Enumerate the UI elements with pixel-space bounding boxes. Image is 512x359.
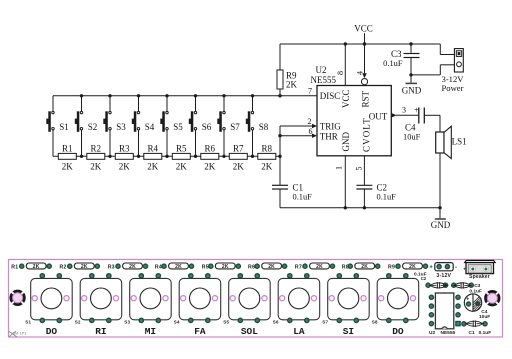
svg-text:S4: S4	[145, 122, 155, 132]
svg-text:2K: 2K	[33, 264, 40, 270]
svg-text:+: +	[414, 105, 419, 115]
svg-text:2K: 2K	[175, 264, 182, 270]
svg-text:2K: 2K	[361, 264, 368, 270]
svg-text:S4: S4	[174, 319, 180, 324]
svg-text:0.1uF: 0.1uF	[469, 288, 482, 294]
svg-text:SM-1P1: SM-1P1	[13, 331, 27, 335]
svg-text:R2: R2	[60, 264, 67, 270]
svg-text:Power: Power	[442, 83, 464, 93]
svg-text:3: 3	[402, 105, 406, 114]
svg-text:0.1uF: 0.1uF	[479, 330, 492, 336]
svg-text:OUT: OUT	[369, 111, 388, 121]
svg-text:R6: R6	[205, 144, 216, 154]
svg-text:DISC: DISC	[320, 91, 341, 101]
svg-text:2K: 2K	[90, 162, 102, 172]
svg-text:C2: C2	[377, 183, 388, 193]
svg-text:S7: S7	[230, 122, 240, 132]
svg-text:R1: R1	[11, 264, 18, 270]
svg-text:S5: S5	[223, 319, 229, 324]
svg-text:S8: S8	[372, 319, 378, 324]
svg-text:TRIG: TRIG	[320, 122, 341, 132]
svg-text:2K: 2K	[62, 162, 74, 172]
svg-text:2K: 2K	[147, 162, 159, 172]
svg-text:R7: R7	[295, 264, 302, 270]
svg-text:+: +	[463, 267, 466, 272]
svg-text:0.1uF: 0.1uF	[383, 59, 403, 68]
svg-text:R4: R4	[148, 144, 159, 154]
svg-text:S5: S5	[173, 122, 183, 132]
svg-text:S3: S3	[116, 122, 126, 132]
svg-text:R5: R5	[176, 144, 187, 154]
svg-text:U2: U2	[429, 330, 435, 336]
svg-text:R8: R8	[262, 144, 273, 154]
svg-text:3-12V: 3-12V	[436, 273, 451, 279]
svg-text:2K: 2K	[409, 264, 416, 270]
svg-text:2: 2	[308, 117, 312, 126]
svg-text:0.1uF: 0.1uF	[377, 192, 397, 201]
svg-text:2K: 2K	[316, 264, 323, 270]
svg-text:NE555: NE555	[441, 330, 456, 336]
svg-text:2K: 2K	[261, 162, 273, 172]
svg-text:2K: 2K	[119, 162, 131, 172]
svg-text:S2: S2	[75, 319, 81, 324]
svg-text:2K: 2K	[222, 264, 229, 270]
svg-text:C4: C4	[405, 123, 416, 133]
svg-text:S1: S1	[59, 122, 69, 132]
svg-text:6: 6	[309, 127, 313, 136]
svg-text:MI: MI	[145, 326, 156, 337]
svg-text:7: 7	[308, 87, 312, 96]
svg-text:C3: C3	[474, 283, 480, 289]
svg-text:FA: FA	[194, 326, 206, 337]
svg-text:2K: 2K	[286, 80, 298, 90]
svg-text:R2: R2	[91, 144, 102, 154]
svg-text:10uF: 10uF	[403, 132, 421, 141]
svg-text:C1: C1	[469, 330, 475, 336]
svg-text:R5: R5	[202, 264, 209, 270]
svg-text:R6: R6	[248, 264, 255, 270]
svg-text:+: +	[430, 264, 433, 270]
svg-text:-: -	[455, 265, 457, 271]
svg-text:2K: 2K	[268, 264, 275, 270]
svg-text:S3: S3	[124, 319, 130, 324]
svg-text:R9: R9	[388, 264, 395, 270]
svg-text:RI: RI	[95, 326, 106, 337]
svg-text:R3: R3	[108, 264, 115, 270]
svg-text:VCC: VCC	[354, 24, 373, 34]
svg-text:C3: C3	[391, 49, 402, 59]
svg-text:2K: 2K	[233, 162, 245, 172]
svg-text:SOL: SOL	[241, 326, 258, 337]
svg-text:SI: SI	[343, 326, 354, 337]
svg-text:R4: R4	[155, 264, 162, 270]
svg-text:1: 1	[334, 166, 343, 170]
svg-text:LS1: LS1	[452, 137, 467, 147]
svg-text:GND: GND	[341, 132, 351, 152]
svg-text:DO: DO	[392, 326, 404, 337]
svg-text:R1: R1	[62, 144, 73, 154]
svg-text:2K: 2K	[129, 264, 136, 270]
svg-text:S1: S1	[25, 319, 31, 324]
svg-text:R3: R3	[119, 144, 130, 154]
svg-text:10uF: 10uF	[479, 314, 490, 320]
svg-text:4: 4	[355, 71, 364, 75]
svg-text:8: 8	[336, 71, 345, 75]
svg-text:2K: 2K	[81, 264, 88, 270]
svg-text:Speaker: Speaker	[469, 274, 490, 280]
svg-text:GND: GND	[431, 220, 451, 230]
svg-text:S2: S2	[88, 122, 98, 132]
svg-text:S6: S6	[202, 122, 212, 132]
svg-text:5: 5	[354, 167, 363, 171]
svg-text:DO: DO	[46, 326, 58, 337]
svg-text:S7: S7	[322, 319, 328, 324]
svg-text:S6: S6	[273, 319, 279, 324]
svg-text:CVOLT: CVOLT	[361, 117, 371, 152]
svg-text:THR: THR	[320, 131, 338, 141]
svg-text:S8: S8	[259, 122, 269, 132]
svg-text:0.1uF: 0.1uF	[293, 192, 313, 201]
svg-text:C2: C2	[421, 276, 427, 281]
svg-text:2K: 2K	[176, 162, 188, 172]
svg-text:VCC: VCC	[341, 89, 351, 108]
svg-text:NE555: NE555	[311, 75, 337, 85]
svg-text:2K: 2K	[204, 162, 216, 172]
svg-text:RST: RST	[361, 90, 371, 107]
svg-text:U2: U2	[316, 65, 327, 75]
svg-text:LA: LA	[293, 326, 305, 337]
svg-text:R7: R7	[233, 144, 244, 154]
svg-text:GND: GND	[402, 86, 422, 96]
svg-text:C1: C1	[293, 183, 304, 193]
